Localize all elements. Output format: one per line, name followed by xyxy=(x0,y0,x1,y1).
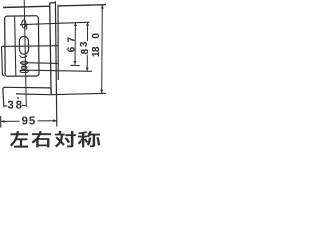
keyhole slot hook below screw hole xyxy=(25,24,26,29)
lower box right step xyxy=(50,88,52,95)
label 38 xyxy=(8,101,14,109)
dimension 95 horizontal arrows xyxy=(1,120,19,122)
95 left extension line xyxy=(0,116,2,128)
screw tip arc below slot xyxy=(20,55,27,57)
screw washer stack xyxy=(20,61,27,64)
ceiling reference line (left segment) xyxy=(3,6,50,7)
column left edge (arm) xyxy=(50,3,51,95)
inner fold line of plate xyxy=(15,17,16,76)
column right edge + 95 extension xyxy=(55,1,56,126)
label 83 (rotated) xyxy=(81,49,88,54)
obround mounting slot xyxy=(19,36,28,54)
crossline through screw hole / top reference for 67 and 83 xyxy=(20,22,90,25)
center axis line through plate xyxy=(24,0,26,107)
mounting plate body (rounded rect) xyxy=(5,16,39,77)
white backing for 83 label xyxy=(80,41,89,55)
lower box top edge xyxy=(3,87,5,89)
label 95 xyxy=(22,116,28,124)
flange top line xyxy=(1,45,58,48)
left flange edge xyxy=(2,46,5,76)
lower box left edge / 38 extension xyxy=(3,89,4,107)
leader / 83 bottom reference xyxy=(28,70,93,71)
screw hole circle with crossline xyxy=(22,20,26,28)
label 67 (rotated) xyxy=(67,47,74,52)
dimension 83 vertical with arrows xyxy=(86,22,88,71)
secondary right edge line xyxy=(57,5,59,80)
dimension 180 vertical with arrows xyxy=(101,5,104,93)
note: left-right symmetric (kanji as paths) xyxy=(10,131,28,148)
38 dimension ticks xyxy=(4,105,7,107)
leader from washer stack (upper) xyxy=(27,62,58,65)
bottom reference line xyxy=(16,93,106,94)
column top edge xyxy=(50,2,56,4)
ceiling reference line (right segment) xyxy=(58,5,106,6)
small dot artifact above 38 xyxy=(17,97,19,99)
label 180 (rotated) xyxy=(92,33,99,38)
dimension 67 vertical with arrows xyxy=(74,23,76,65)
67 bottom reference segment xyxy=(71,64,80,66)
